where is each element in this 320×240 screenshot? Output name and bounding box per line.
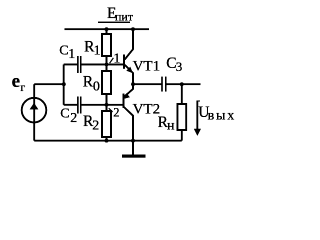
svg-text:г: г [20,80,25,94]
svg-text:0: 0 [93,80,100,95]
svg-text:e: e [12,71,20,92]
svg-text:VT1: VT1 [133,58,161,74]
svg-text:1: 1 [94,44,101,59]
svg-text:пит: пит [115,10,134,24]
svg-text:3: 3 [176,59,183,74]
svg-text:VT2: VT2 [133,102,161,118]
svg-text:1: 1 [68,47,75,62]
svg-text:вых: вых [208,109,236,124]
svg-text:1: 1 [113,52,120,67]
svg-text:C: C [59,43,68,58]
svg-text:2: 2 [92,118,99,133]
svg-text:2: 2 [70,111,77,126]
svg-text:2: 2 [113,106,119,120]
svg-text:н: н [167,119,175,134]
svg-text:C: C [60,107,69,122]
